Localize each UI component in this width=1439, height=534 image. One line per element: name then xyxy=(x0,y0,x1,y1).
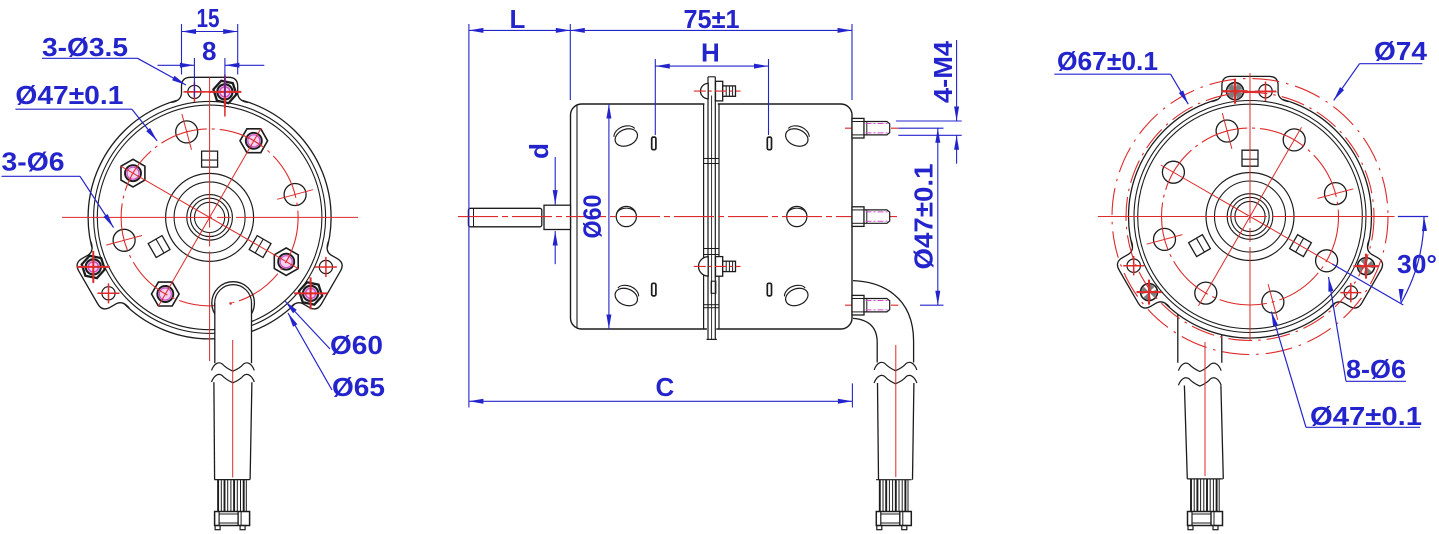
svg-text:Ø74: Ø74 xyxy=(1374,36,1428,66)
svg-text:d: d xyxy=(524,143,554,159)
svg-text:8-Ø6: 8-Ø6 xyxy=(1346,354,1406,384)
svg-text:Ø47±0.1: Ø47±0.1 xyxy=(1310,401,1422,431)
svg-text:3-Ø3.5: 3-Ø3.5 xyxy=(42,32,128,62)
svg-text:Ø65: Ø65 xyxy=(332,372,385,402)
svg-text:L: L xyxy=(510,4,526,34)
svg-text:Ø60: Ø60 xyxy=(579,195,607,239)
svg-text:C: C xyxy=(656,372,675,402)
svg-text:4-M4: 4-M4 xyxy=(928,40,958,103)
svg-text:8: 8 xyxy=(202,36,216,66)
svg-text:Ø67±0.1: Ø67±0.1 xyxy=(1057,46,1158,76)
svg-text:H: H xyxy=(701,38,720,68)
svg-text:15: 15 xyxy=(197,3,220,33)
svg-text:Ø47±0.1: Ø47±0.1 xyxy=(15,80,123,110)
svg-text:3-Ø6: 3-Ø6 xyxy=(2,147,65,177)
svg-text:Ø60: Ø60 xyxy=(330,330,383,360)
svg-text:Ø47±0.1: Ø47±0.1 xyxy=(909,164,939,270)
svg-text:75±1: 75±1 xyxy=(684,4,740,34)
